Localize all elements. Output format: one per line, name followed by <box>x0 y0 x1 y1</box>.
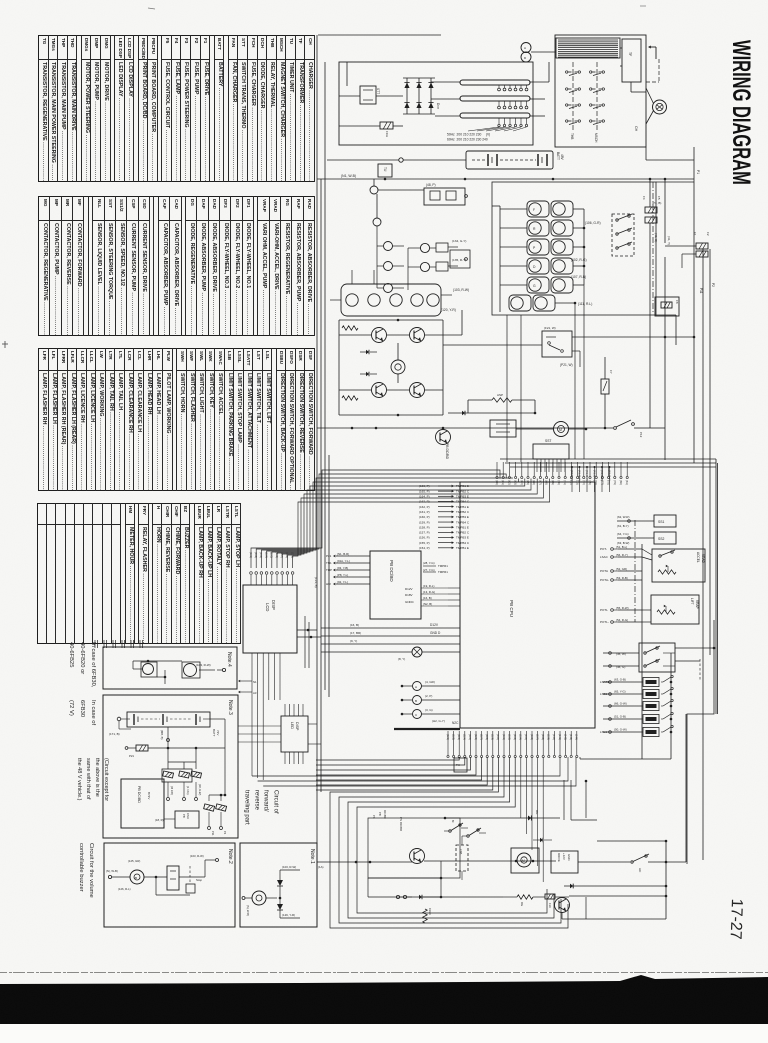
wire left bus vertical B <box>320 179 322 792</box>
label 133 B <box>314 577 318 588</box>
wire pin vertical drops <box>521 757 543 882</box>
wire right drop 710 <box>709 249 711 655</box>
hour meter lamp <box>321 647 460 661</box>
pump motor MP <box>516 422 587 437</box>
legend table charger / fuses / motors <box>37 35 315 182</box>
note text: circuit of forward reverse <box>269 790 279 990</box>
cpu aux circle 2P <box>401 694 460 705</box>
label P11 <box>699 288 703 294</box>
fuse F4 <box>642 196 657 213</box>
note3 board PB DC/BD <box>121 779 164 828</box>
transformer winding bar 3 <box>460 113 530 118</box>
winding tap terminals row 3 <box>498 118 528 127</box>
battery BATT 48V <box>466 151 564 169</box>
wire TF leads <box>620 48 646 92</box>
wire LCD right taps <box>297 629 321 639</box>
contactor MG pair row low <box>509 295 576 311</box>
label P6 PB <box>372 810 387 819</box>
wire bridge frame <box>339 319 443 417</box>
connector tick row <box>495 462 629 485</box>
fuse F7 <box>601 370 613 394</box>
wire bridge to windings <box>431 82 460 116</box>
thermal relay THB contacts <box>566 62 581 139</box>
wire 9Y rail <box>321 639 460 644</box>
wire control box drops <box>507 285 584 462</box>
fuse F5 <box>645 196 661 223</box>
thermistor TH1 box <box>454 758 467 772</box>
label 120 Y-R <box>441 308 456 312</box>
label 111 R-L <box>578 302 592 306</box>
wire contactor row returns <box>583 209 586 285</box>
dashed link LS <box>699 659 701 681</box>
wire left risers <box>368 861 442 897</box>
wire display return bus <box>252 757 576 786</box>
diode AB <box>533 838 552 843</box>
wire main row 428 <box>317 427 613 430</box>
aux contactor circle row c <box>377 226 404 293</box>
note1 diodes <box>277 870 283 918</box>
pilot contactor circle a <box>370 179 424 194</box>
transformer TF enclosure <box>555 35 646 147</box>
wire right vertical 717b <box>717 463 719 714</box>
wire battery feed <box>327 158 466 162</box>
legend table resistors / diodes / sensors / contactors <box>37 196 315 336</box>
resistor RG <box>503 895 545 906</box>
wire LED links <box>238 724 321 744</box>
scan mark top <box>148 6 646 9</box>
wire board to cpu <box>448 588 460 606</box>
LED DISP pins <box>285 704 303 764</box>
scan mark left <box>2 341 8 348</box>
fan motor FAN <box>646 88 667 124</box>
note text: circuit volume buzzer <box>84 843 94 1043</box>
note4 relay b <box>182 662 200 678</box>
switch trans thermo STT <box>360 86 380 104</box>
diode bridge DCH <box>403 78 440 114</box>
limit switch box top <box>603 643 675 672</box>
ground return arrow <box>648 45 656 59</box>
label P2 <box>711 283 715 287</box>
note3 wire mid <box>167 719 226 748</box>
wire main bus P1 <box>317 178 694 181</box>
board pin labels TMPR <box>423 561 448 574</box>
note3 fuse b <box>179 771 190 800</box>
fuse FCH <box>380 122 393 137</box>
display LED DISP <box>281 716 308 752</box>
wire harness hooks to LCD <box>251 470 550 568</box>
display LCD DISP <box>243 585 297 653</box>
cpu aux circle 4GR <box>401 680 460 691</box>
resistor bridge upper <box>342 326 358 330</box>
big control loop box <box>492 182 656 315</box>
legend table stop lamps / buzzer / horn / relay <box>36 503 241 644</box>
wire D12V rail <box>321 623 460 628</box>
fuse F1 <box>693 232 708 249</box>
note3 label MB <box>160 730 164 740</box>
transformer winding bar 2 <box>460 96 530 101</box>
label 106 G-R <box>585 221 601 225</box>
drive unit box <box>551 851 578 873</box>
dash-dot boundary <box>652 182 654 312</box>
wire bottom rail cont <box>424 860 556 863</box>
wire top bus horizontal <box>318 34 441 36</box>
note text: circuit except note <box>100 758 109 958</box>
flywheel diode DF2 <box>360 372 377 377</box>
wire bridge to relay <box>443 310 542 345</box>
wire relay link <box>408 248 421 290</box>
wire hc row <box>578 854 686 873</box>
resistor FR20 <box>423 908 432 923</box>
note text: in case of 6FB30 72V <box>85 700 96 900</box>
wire tg link <box>562 897 666 919</box>
switch P12 <box>614 420 650 438</box>
note3 battery BATT 72V <box>117 712 220 737</box>
wire right vert 686 <box>685 714 687 862</box>
transistor THD lower left <box>372 383 387 398</box>
note text: in case of 6FB30 40-6FB20 <box>85 642 96 842</box>
wire nested travel-circuit enclosure <box>330 757 568 928</box>
note3 fuse c <box>191 771 202 800</box>
transformer TF winding box <box>622 39 641 82</box>
note4 wiring <box>133 660 226 684</box>
wire coil group feeds <box>330 270 374 300</box>
wire left bus vertical D <box>328 455 330 697</box>
note3 wire fuse feeds <box>168 748 196 769</box>
winding tap terminals row 2 <box>498 101 528 109</box>
wire bottom rail main <box>317 861 412 864</box>
wire pump feed row <box>448 411 536 416</box>
dash-dot link TF <box>646 59 659 82</box>
label P1-B <box>652 201 661 205</box>
wire left verts bottom <box>564 780 597 820</box>
label 107 R-B <box>571 275 586 279</box>
speed sensor SS1 <box>617 515 676 528</box>
wire left bus vertical C <box>324 62 326 690</box>
note4 label 103 <box>196 663 211 667</box>
wire contactor feed bus <box>492 206 500 312</box>
print board PB CPU <box>460 482 595 728</box>
label PS DCBD <box>399 817 403 832</box>
wire right drop 703 <box>702 249 704 860</box>
limit switch rows LS <box>600 675 673 736</box>
label PB DC-BD vertical <box>445 443 449 460</box>
wire right vertical 716 <box>715 459 717 714</box>
wire diode row 886 <box>564 884 666 889</box>
note3 resistor a <box>204 804 215 836</box>
scan black bottom bar <box>0 975 768 1024</box>
wire staircase bus to display <box>316 757 493 790</box>
wire relay taps <box>572 336 695 367</box>
contactor MP pair row <box>500 239 584 255</box>
wire F7 drop <box>604 357 607 429</box>
contactor coil group 103 <box>341 284 469 316</box>
current sensor CSD <box>391 343 405 383</box>
label 41 Y <box>667 236 671 245</box>
label N1 W-B <box>341 174 356 178</box>
contactor MG pair row <box>500 277 584 293</box>
wire LS bus return <box>580 757 642 759</box>
note2 wiring <box>108 859 218 896</box>
wire lsb link <box>461 836 463 880</box>
wire inner circuit box <box>368 818 460 878</box>
accel pot VRAD <box>642 549 705 582</box>
aux contactor circle row b <box>377 262 404 271</box>
cpu bottom bar <box>394 728 460 730</box>
pump contactor box <box>490 420 516 437</box>
title WIRING DIAGRAM <box>729 40 750 188</box>
wire right rails <box>500 459 716 467</box>
note3 resistor b <box>216 804 227 835</box>
transformer winding bar 1 <box>460 80 530 85</box>
wire right drop 665 <box>664 179 666 460</box>
label 1A <box>318 865 323 869</box>
potentiometer harness rows <box>600 545 642 624</box>
legend table switches / lamps <box>37 348 315 491</box>
note 4 box <box>103 647 237 689</box>
pilot contactor circle b <box>373 194 381 226</box>
wire P1 riser <box>694 147 700 463</box>
wire pot drop 642 <box>641 544 643 759</box>
note 1 box <box>240 843 317 927</box>
diode DG row <box>444 810 560 821</box>
right harness drops <box>570 466 612 492</box>
board output rows <box>405 584 448 606</box>
speed sensor SS2 <box>617 532 676 545</box>
dash-dot vertical mid right <box>634 520 636 622</box>
terminal circles bottom <box>396 895 441 900</box>
winding tap terminals row 1 <box>498 85 528 91</box>
flywheel diode DF1 <box>360 350 377 355</box>
transistor THP <box>436 430 451 445</box>
wire LS top ties <box>675 647 715 661</box>
note2 buzzer BZ <box>130 870 144 884</box>
scan speckle line <box>0 972 768 974</box>
lsb dashed box <box>456 845 468 871</box>
transistor THD lower right <box>410 383 425 398</box>
voltage tap label <box>447 133 490 142</box>
label N2C <box>432 719 459 725</box>
timer unit TU box <box>378 164 392 177</box>
wire right vert 666 <box>665 841 668 919</box>
note4 out arrows <box>238 680 257 695</box>
magnet switch MSCH contacts <box>590 62 605 143</box>
label CH <box>634 126 638 132</box>
label P21 W <box>560 363 573 367</box>
print board PB DC/BD <box>370 551 421 619</box>
cpu aux circle 3G <box>401 708 460 719</box>
note1 wiring <box>242 870 300 918</box>
fuse F2 <box>696 232 710 257</box>
note3 fuse pair frame <box>162 769 192 782</box>
aux relay F21 box <box>542 326 572 357</box>
direction switch MF <box>444 820 468 832</box>
bottom transistor TG1 <box>410 849 425 864</box>
wire charger internals <box>339 62 403 126</box>
contactor MD pair row <box>500 258 584 274</box>
relay pair 134 <box>420 239 466 253</box>
wire winding bus right <box>530 62 549 116</box>
contactor MR pair row <box>500 220 584 236</box>
LCD pin row <box>249 552 295 585</box>
wire drive box top rail <box>597 840 667 843</box>
aux contactor circle row a <box>377 242 404 251</box>
note3 fuse P21 <box>125 745 225 758</box>
relay frame box <box>450 250 470 268</box>
label 43 G <box>654 233 658 242</box>
note 2 box <box>104 843 235 927</box>
note 3 box <box>103 695 238 838</box>
fuse box F8 <box>655 297 679 316</box>
wire bottom tg row <box>368 896 569 899</box>
wire lcd side verticals <box>305 616 309 668</box>
note3 board PB CSU <box>155 811 199 828</box>
contactor MF pair row <box>500 201 584 217</box>
note4 top tick row <box>95 640 143 648</box>
pump motor M bottom <box>511 848 539 873</box>
relay pair 135 <box>420 258 466 272</box>
wire LS bus right <box>642 653 671 759</box>
key switch chain SWK <box>612 214 634 256</box>
wire row 896 <box>569 895 666 897</box>
note2 chime box <box>167 866 179 890</box>
direction switch MR <box>462 828 486 837</box>
note2 labels <box>106 854 204 891</box>
note3 fuse a <box>163 771 174 800</box>
wire fuse F1 F2 tie <box>665 246 696 268</box>
tap fan-out leads <box>468 127 527 131</box>
page number 17-27 <box>729 899 747 941</box>
LCD bottom pins <box>252 653 280 780</box>
wire right drop 650 <box>649 179 651 428</box>
board input arrows <box>326 552 370 586</box>
transistor THD upper left <box>372 328 387 343</box>
fuse F10 <box>545 894 555 908</box>
wire 428 tail <box>650 427 665 429</box>
note3 label 171B <box>109 721 131 736</box>
label 102 R-G <box>571 258 587 262</box>
transformer TF core hatch <box>556 38 620 58</box>
wire step enclosure right <box>687 620 714 864</box>
resistor bridge lower <box>342 396 358 400</box>
transistor THD upper right <box>410 328 425 343</box>
wire control box extensions <box>656 182 694 345</box>
wire TF bottom to bus <box>646 147 694 160</box>
wire left bus vertical A <box>316 35 318 862</box>
charger unit CH enclosure <box>339 62 533 145</box>
resistor ASP <box>468 393 535 413</box>
timer unit AN DN indicator circles <box>521 43 556 63</box>
note1 horn relay <box>252 891 266 905</box>
note3 wire right <box>209 748 226 801</box>
transistor TG2 <box>555 898 570 913</box>
wire GND rail <box>321 631 460 636</box>
note4 relay a <box>121 662 157 677</box>
lift pot VRAP <box>642 595 699 624</box>
thermistor ladder TMPB <box>419 484 470 550</box>
relay board 48P box <box>424 183 467 205</box>
steering torque sensor SST <box>533 439 569 459</box>
SST pins <box>537 459 565 472</box>
note1 labels <box>246 865 296 917</box>
cpu bottom pin row <box>446 731 579 758</box>
